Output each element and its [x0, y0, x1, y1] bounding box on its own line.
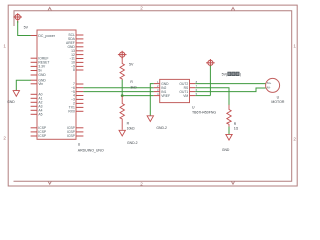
svg-text:GND: GND — [7, 100, 15, 104]
zone label bottom 2 — [140, 182, 143, 187]
motor reference U MOTOR — [271, 96, 284, 105]
ground GND-2 at IC — [147, 116, 153, 122]
wire 5V to DC_power — [18, 21, 31, 36]
ground GND left — [13, 90, 19, 97]
svg-text:1: 1 — [3, 44, 6, 49]
svg-text:MOTOR: MOTOR — [271, 100, 284, 104]
IC left pin names — [161, 82, 170, 98]
zone tick top 1 — [48, 7, 51, 10]
svg-text:GND-2: GND-2 — [156, 126, 167, 130]
svg-text:2: 2 — [140, 6, 143, 11]
svg-text:1: 1 — [293, 44, 296, 49]
ground GND-2 divider — [119, 130, 125, 136]
svg-text:M-: M- — [267, 85, 271, 89]
svg-text:8: 8 — [73, 68, 75, 72]
sheet border inner frame — [14, 11, 292, 182]
label GND-2 divider — [127, 141, 138, 145]
zone label top 2 — [140, 6, 143, 11]
power symbol 5V motor supply — [206, 59, 215, 67]
zone tick bottom 2 — [231, 181, 234, 184]
junction dot VREF divider — [121, 94, 124, 97]
svg-text:5V: 5V — [24, 26, 29, 30]
Arduino left pin stubs — [31, 58, 37, 136]
wire OUT1 to motor — [195, 88, 265, 92]
svg-text:5v: 5v — [38, 69, 42, 73]
wire RS to sense resistor — [195, 88, 229, 106]
svg-text:2: 2 — [140, 182, 143, 187]
label R 10k — [127, 121, 135, 130]
svg-text:A5: A5 — [38, 113, 42, 117]
power symbol 5V top-left — [13, 13, 22, 23]
wire Arduino GND to ground — [16, 80, 31, 90]
svg-text:1Ω: 1Ω — [234, 126, 239, 130]
ground GND at sense resistor — [226, 134, 232, 140]
label 5V top-left — [24, 26, 29, 30]
wire junction to VREF — [122, 95, 154, 97]
Arduino right pin names — [66, 33, 76, 138]
IC right pin stubs — [190, 84, 196, 96]
motor driver U TB67H450FNG body — [160, 79, 190, 102]
label R 1ohm — [234, 122, 239, 130]
svg-text:2: 2 — [293, 137, 296, 142]
label 5V divider — [129, 62, 134, 66]
svg-text:3kΩ: 3kΩ — [130, 86, 137, 90]
svg-text:): ) — [240, 73, 241, 77]
wire pin ~6 to IN2 — [83, 87, 153, 89]
zone label left 1 — [3, 44, 6, 49]
svg-text:GND: GND — [38, 73, 46, 77]
label R 3k — [130, 80, 137, 89]
wire 5V to VM — [209, 66, 211, 96]
power symbol 5V divider — [118, 51, 127, 59]
Arduino UNO symbol body U — [37, 30, 76, 139]
Arduino left pin names — [38, 56, 49, 138]
label GND-2 at IC — [156, 126, 167, 130]
wire OUT2 to motor — [195, 83, 265, 85]
resistor R 10k — [120, 96, 124, 130]
wire 3k to junction — [121, 80, 123, 96]
svg-text:5V(: 5V( — [222, 73, 228, 77]
zone label left 2 — [3, 136, 6, 141]
svg-text:5V: 5V — [129, 62, 134, 66]
Arduino right pin stubs — [76, 35, 83, 136]
Arduino pin name DC_power — [38, 34, 55, 38]
resistor R 1ohm — [227, 105, 231, 127]
resistor R 3k — [120, 58, 124, 81]
pin stub DC_power — [31, 35, 37, 37]
zone tick bottom 1 — [48, 181, 51, 184]
wire pin ~5 to IN1 — [83, 91, 153, 93]
svg-text:GND-2: GND-2 — [127, 141, 138, 145]
motor U MOTOR symbol — [266, 78, 280, 92]
svg-text:TB67H450FNG: TB67H450FNG — [192, 111, 216, 115]
IC left pin numbers — [157, 80, 159, 96]
svg-text:GND: GND — [222, 148, 230, 152]
wire 1ohm to ground — [228, 127, 230, 134]
zone label right 1 — [293, 44, 296, 49]
zone tick top 2 — [231, 7, 234, 10]
wire IC GND pin to ground — [150, 84, 154, 116]
zone label right 2 — [293, 137, 296, 142]
svg-text:ICSP: ICSP — [38, 134, 46, 138]
label 5V(betsudengen) — [222, 72, 242, 77]
motor terminal labels — [267, 81, 271, 89]
sheet border outer frame — [8, 5, 297, 186]
svg-text:10kΩ: 10kΩ — [127, 127, 135, 131]
IC left pin stubs — [154, 84, 160, 96]
svg-text:DC_power: DC_power — [38, 34, 55, 38]
label GND left — [7, 100, 15, 104]
svg-text:ICSP: ICSP — [67, 134, 75, 138]
svg-text:VM: VM — [183, 94, 188, 98]
svg-text:Vin: Vin — [38, 82, 43, 86]
svg-text:2: 2 — [3, 136, 6, 141]
IC right pin names — [179, 82, 189, 98]
label GND at sense resistor — [222, 148, 230, 152]
wire VM pin — [195, 95, 210, 97]
svg-text:VREF: VREF — [161, 94, 170, 98]
svg-text:ARDUINO_UNO: ARDUINO_UNO — [78, 148, 104, 152]
IC right pin numbers — [196, 80, 198, 96]
Arduino reference U ARDUINO_UNO — [78, 143, 104, 153]
IC reference U TB67H450FNG — [192, 106, 216, 115]
svg-text:RX0: RX0 — [68, 110, 75, 114]
